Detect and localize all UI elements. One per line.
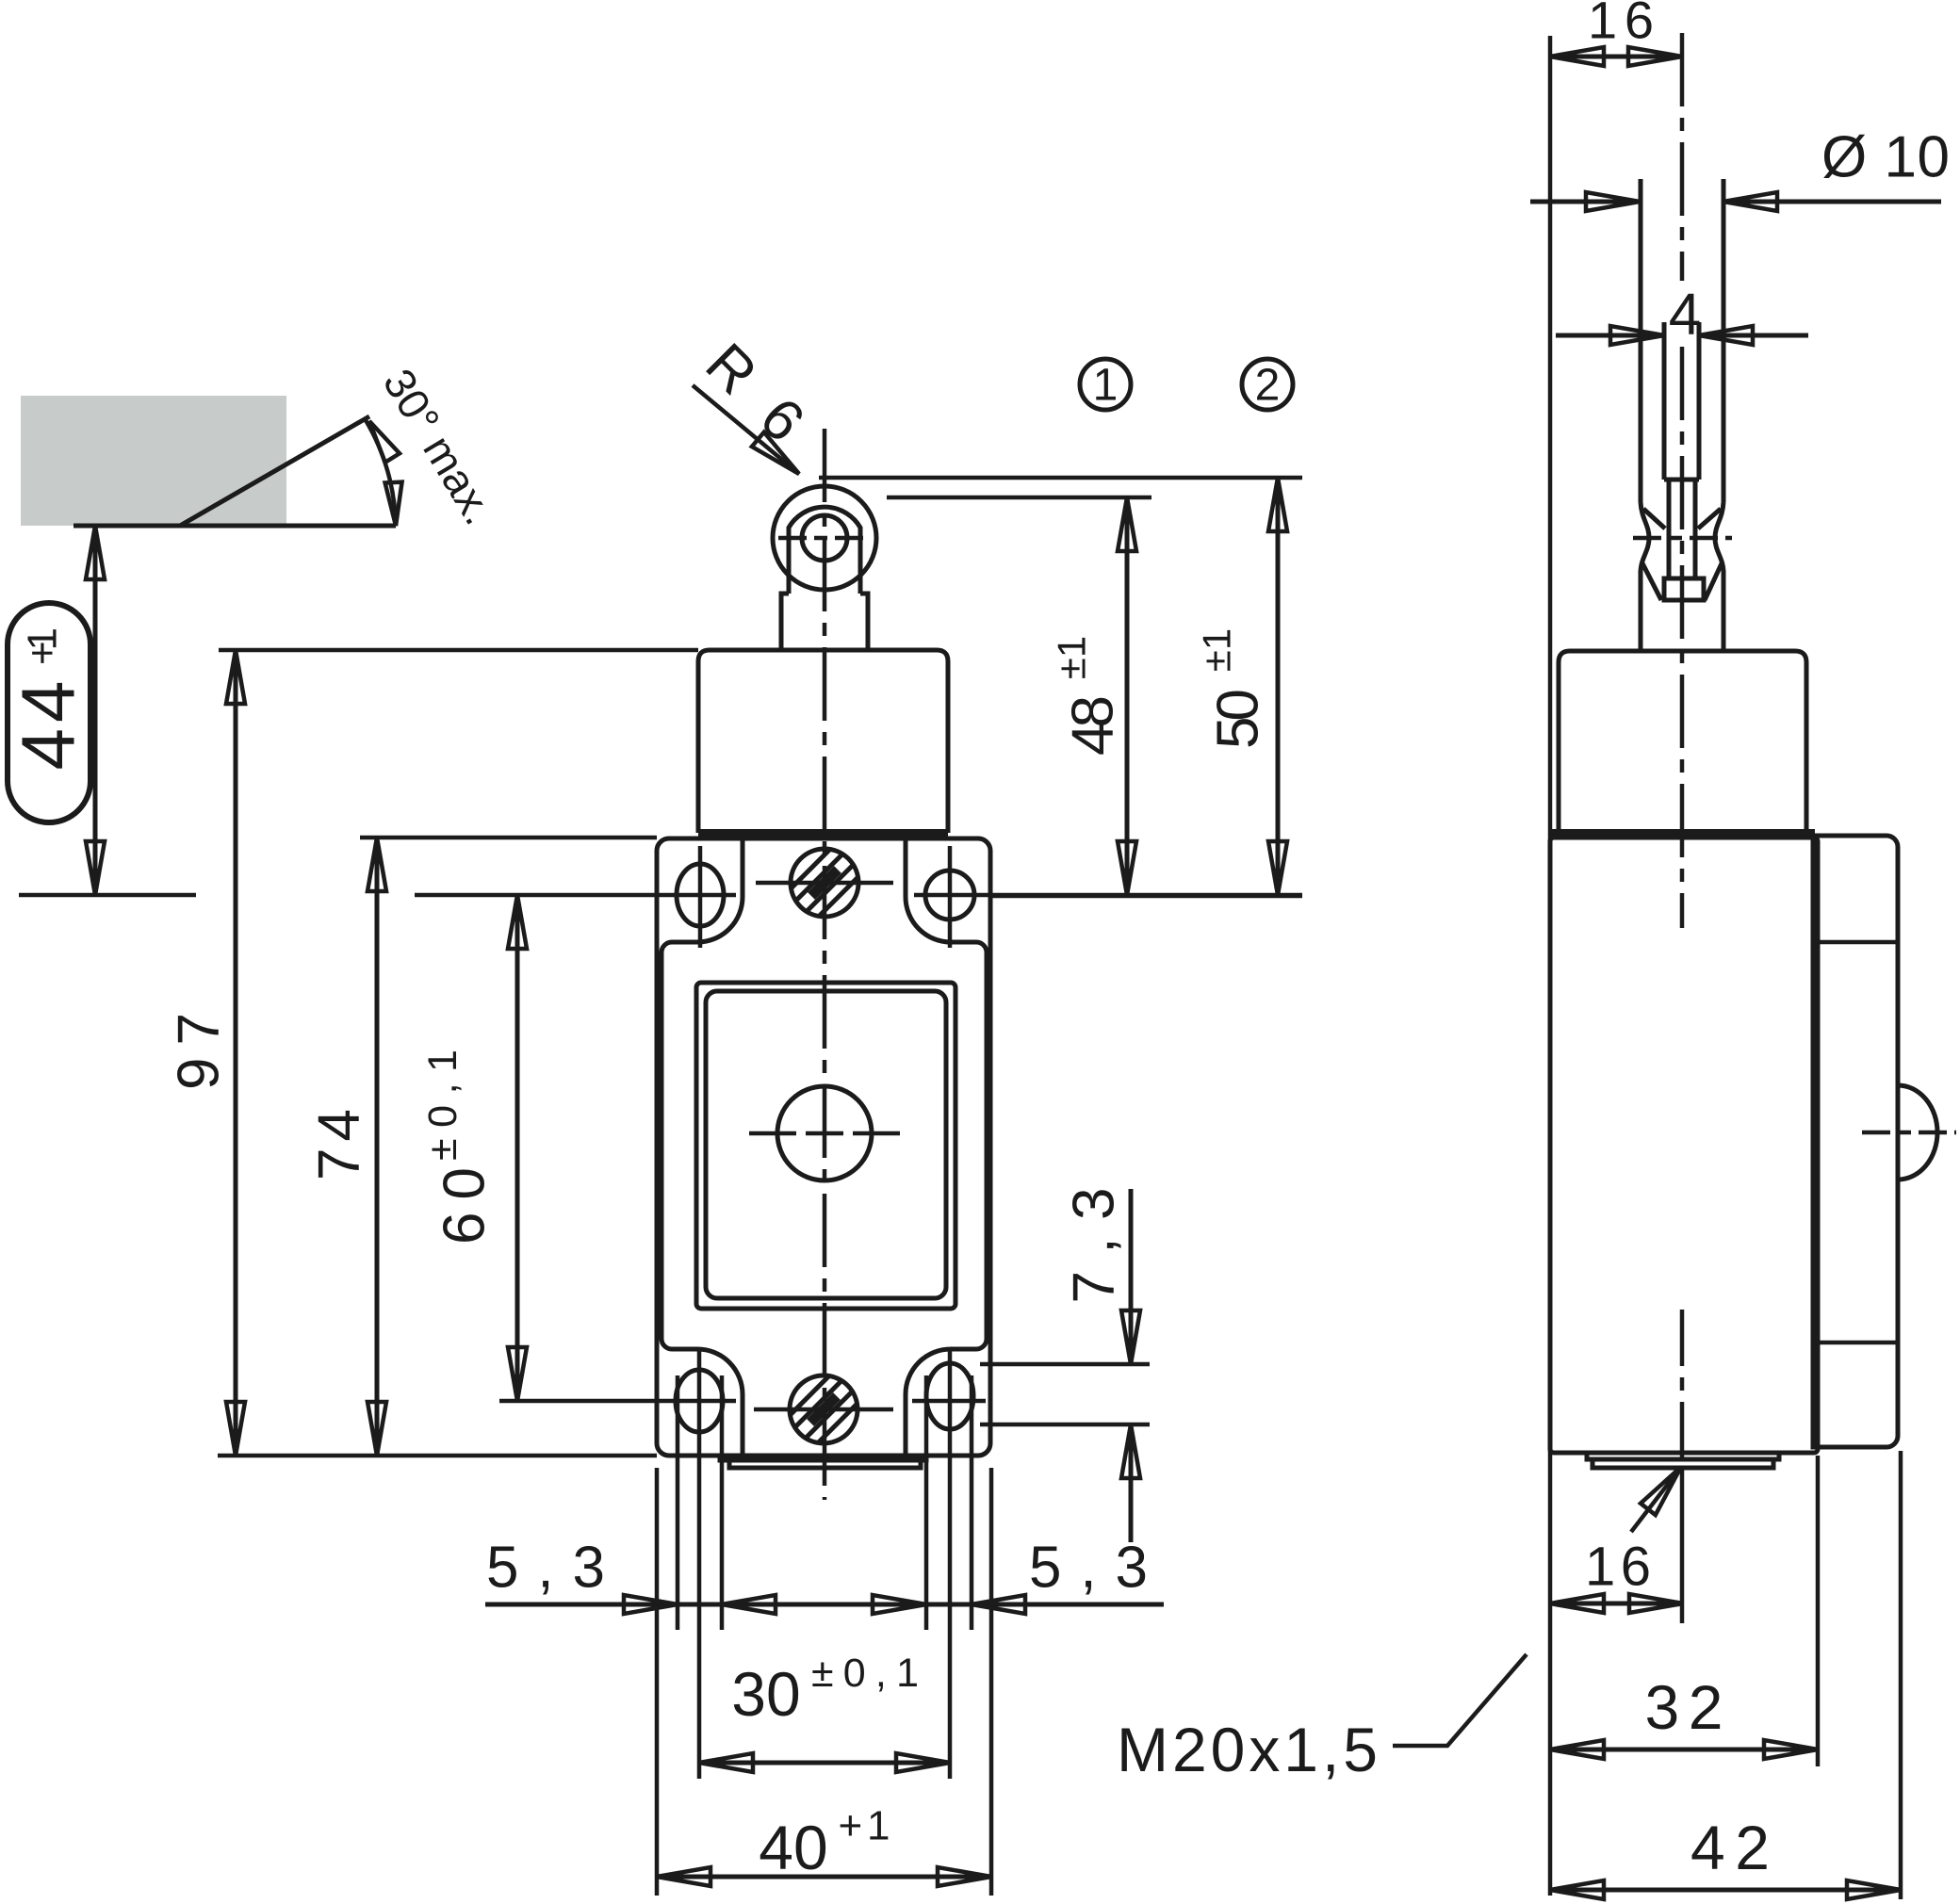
front head bottom thick line [698,829,948,838]
svg-text:4: 4 [1669,283,1701,348]
dimension 40 +1 [657,1875,991,1880]
extension line 74 top [360,836,657,840]
circled index 2 [1242,359,1293,410]
extension lines 7,3 [980,1362,1150,1367]
top holes centerline left [415,893,736,898]
svg-text:30: 30 [731,1659,800,1729]
side centerline [1680,33,1685,281]
fork neck left [1641,502,1649,651]
dimension diameter 10 [1530,200,1640,204]
30deg wedge baseline [73,524,396,529]
extension line 42 right [1899,1451,1903,1899]
30deg arc arrow [366,420,396,526]
dimension 32 [1550,1748,1818,1752]
lever plate side [1667,480,1672,578]
pin centerline side [1633,536,1732,541]
dimension 44 line [93,526,98,895]
lever shaft collar front [781,594,789,650]
circled index 1 [1080,359,1131,410]
svg-text:+1: +1 [20,627,66,665]
roller front [773,486,876,590]
cover plate outer [696,983,955,1309]
dimension 5,3 left and right [485,1603,1164,1607]
dimension 50 +-1 [1276,478,1281,895]
position line 2 (lever top) [819,476,1302,480]
cover plate inner [706,991,946,1298]
slot edge extension lines bottom-left [676,1375,680,1630]
gland separator bottom [1813,1341,1898,1345]
front body inner contour right (pockets) [906,838,987,1454]
fork taper right [1705,561,1723,600]
bottom holes centerline left [499,1399,736,1404]
dome centerline [1862,1131,1956,1135]
M20 leader [1393,1654,1527,1746]
front main centerline [823,429,827,1500]
side bottom ledge step 2 [1592,1459,1773,1468]
dimension 16 top [1550,55,1682,59]
extension line bottom shared 97/74 [218,1454,657,1458]
svg-text:1: 1 [1093,361,1119,411]
front body outline [657,838,990,1456]
position line 1 [887,496,1151,500]
side extension line left [1548,36,1553,1896]
dimension 7,3 [1129,1189,1134,1364]
dimension 48 +-1 [1125,497,1130,895]
side dome bump [1898,1085,1937,1180]
dimension 60 +-0,1 [515,895,520,1401]
front bottom ledge step 1 [720,1456,926,1460]
side bottom ledge step 1 [1587,1453,1779,1459]
lever crossbar [1664,478,1699,482]
actuating cam gray plate [21,396,286,526]
leader 16 bottom [1631,1467,1681,1532]
extension line 97 top [219,648,698,653]
front head block [698,650,948,833]
lever fork front [789,507,860,594]
svg-text:±1: ±1 [1195,628,1239,672]
dimension 97 [234,650,238,1456]
bottom holes centerline right [912,1399,986,1404]
mounting slot top-left [677,864,724,926]
svg-text:±0,1: ±0,1 [811,1651,919,1696]
front bottom ledge step 2 [729,1460,921,1468]
svg-text:7,3: 7,3 [1062,1188,1127,1304]
dimension 4 [1556,334,1664,338]
dimension 16 bottom [1550,1602,1683,1606]
fork taper left [1641,561,1661,600]
svg-text:5,3: 5,3 [1029,1536,1148,1601]
fork neck right [1715,502,1723,651]
dimension 42 [1550,1888,1901,1893]
lever end cap [1664,578,1704,600]
svg-text:5,3: 5,3 [486,1536,605,1601]
extension line 44 bottom [19,893,196,898]
mounting slot bottom-left [676,1370,723,1432]
lever shaft side lines [1662,322,1667,480]
svg-text:50: 50 [1206,689,1271,749]
svg-text:±0,1: ±0,1 [420,1050,465,1161]
roller pin front [802,515,847,561]
svg-text:±1: ±1 [1050,636,1094,679]
svg-text:Ø 10: Ø 10 [1821,125,1950,190]
front body inner contour left (pockets) [661,838,743,1454]
fork chamfer left [1643,509,1665,529]
mounting slot bottom-right [926,1363,973,1429]
central plug hole [777,1086,872,1180]
30deg wedge hypotenuse [180,416,369,526]
svg-text:48: 48 [1061,695,1126,756]
svg-text:40: 40 [759,1813,827,1882]
cable gland block [1813,836,1898,1447]
top holes centerline right [914,893,1302,898]
side body outline [1550,838,1818,1453]
side head block [1559,651,1806,833]
R6 leader [693,385,799,474]
extension line 48/50 bottom [991,894,1302,899]
fork chamfer right [1698,509,1721,529]
mounting slot top-right [925,871,974,919]
slot edge extension lines bottom-right [924,1375,929,1630]
side head bottom thick line [1550,829,1815,838]
dimension 44+1 capsule frame [8,603,90,822]
svg-text:2: 2 [1255,361,1281,411]
dimension 30 +-0,1 [699,1761,950,1766]
bottom screw [790,1375,857,1443]
lever roller side lines [1639,179,1643,502]
gland separator top [1813,940,1898,945]
extension line 32 right [1816,1456,1821,1766]
body edge extension lines bottom [655,1468,660,1896]
dimension 74 [375,838,380,1456]
top screw [791,849,858,917]
